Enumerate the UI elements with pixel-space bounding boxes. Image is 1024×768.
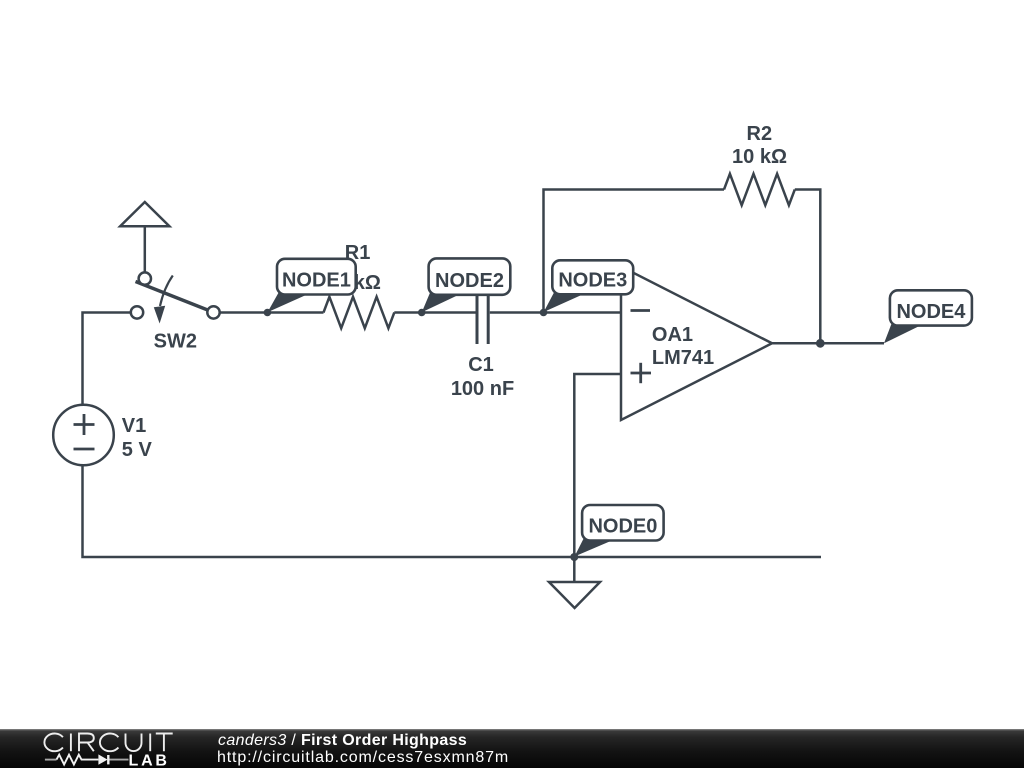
svg-text:V1: V1 (122, 415, 146, 437)
svg-text:NODE3: NODE3 (558, 270, 627, 292)
svg-text:R2: R2 (747, 123, 773, 145)
svg-text:C1: C1 (468, 354, 494, 376)
svg-text:NODE4: NODE4 (896, 301, 966, 323)
svg-text:OA1: OA1 (652, 324, 693, 346)
svg-text:SW2: SW2 (154, 330, 197, 352)
svg-text:NODE0: NODE0 (588, 516, 657, 538)
svg-text:LAB: LAB (129, 752, 170, 768)
svg-text:100 nF: 100 nF (451, 378, 514, 400)
svg-text:5 V: 5 V (122, 439, 153, 461)
svg-text:10 kΩ: 10 kΩ (732, 146, 787, 168)
svg-text:NODE2: NODE2 (435, 270, 504, 292)
svg-text:NODE1: NODE1 (282, 270, 351, 292)
svg-text:LM741: LM741 (652, 347, 714, 369)
